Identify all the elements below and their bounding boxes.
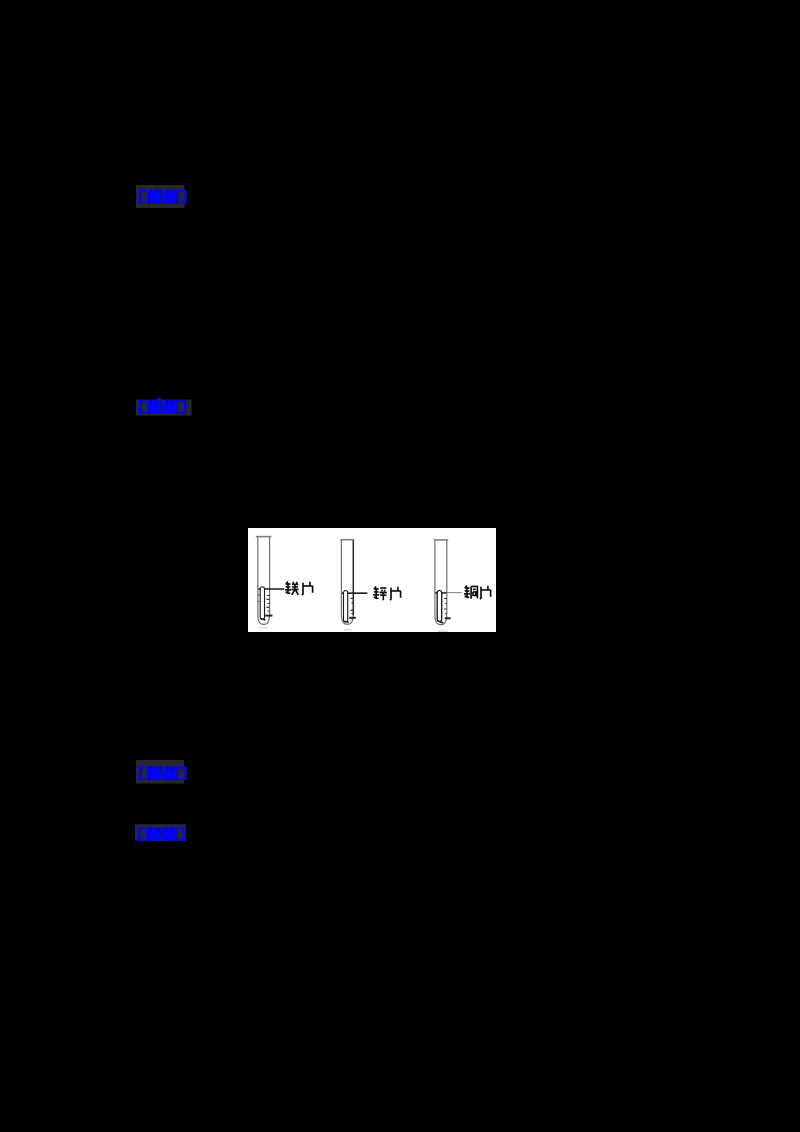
tube T1 left wall ticks [258,595,260,602]
label 镁片 [285,582,299,595]
figure box: three test tubes with metal strips [248,528,496,632]
tube T1 bottom thick tick [265,615,272,617]
tube T3 bottom thick tick [445,617,451,619]
tube T2 metal strip (zinc) [344,591,348,622]
test tube T2 outline [341,540,353,624]
tube T3 shadow under [438,630,448,632]
tube T1 rim [256,536,272,538]
tube T2 graduation ticks [350,598,353,613]
white figure background [248,528,496,632]
tube T1 liquid surface + leader line to label [258,588,284,590]
tube T3 graduation ticks [444,599,446,614]
section label S2 blue highlighted tag [136,396,196,422]
tube T3 leader line to label (thin gray) [447,592,462,594]
tube T3 liquid surface [435,592,447,594]
section label S3 blue highlighted tag [136,760,196,786]
tube T2 liquid surface + leader line to label [342,592,368,594]
tube T2 bottom thick tick [349,617,356,619]
tube T2 rim [340,539,354,541]
label 锌片 [373,587,387,601]
label 铜片 [464,586,477,599]
tube T3 metal strip (copper) [437,591,442,622]
section label S4 blue highlighted tag [135,824,195,850]
tube T1 metal strip (magnesium) [260,587,264,620]
tube T3 rim [434,539,448,541]
tube T1 shadow under [259,627,269,629]
tube T2 right wall darker [352,540,354,615]
section label S2 ascender nub [157,398,161,401]
test tube T3 outline [435,541,447,625]
tube T2 shadow under [344,629,352,631]
test tube T1 outline [258,537,270,624]
section label S1 blue highlighted tag [136,185,196,211]
tube T1 graduation ticks [266,596,269,612]
